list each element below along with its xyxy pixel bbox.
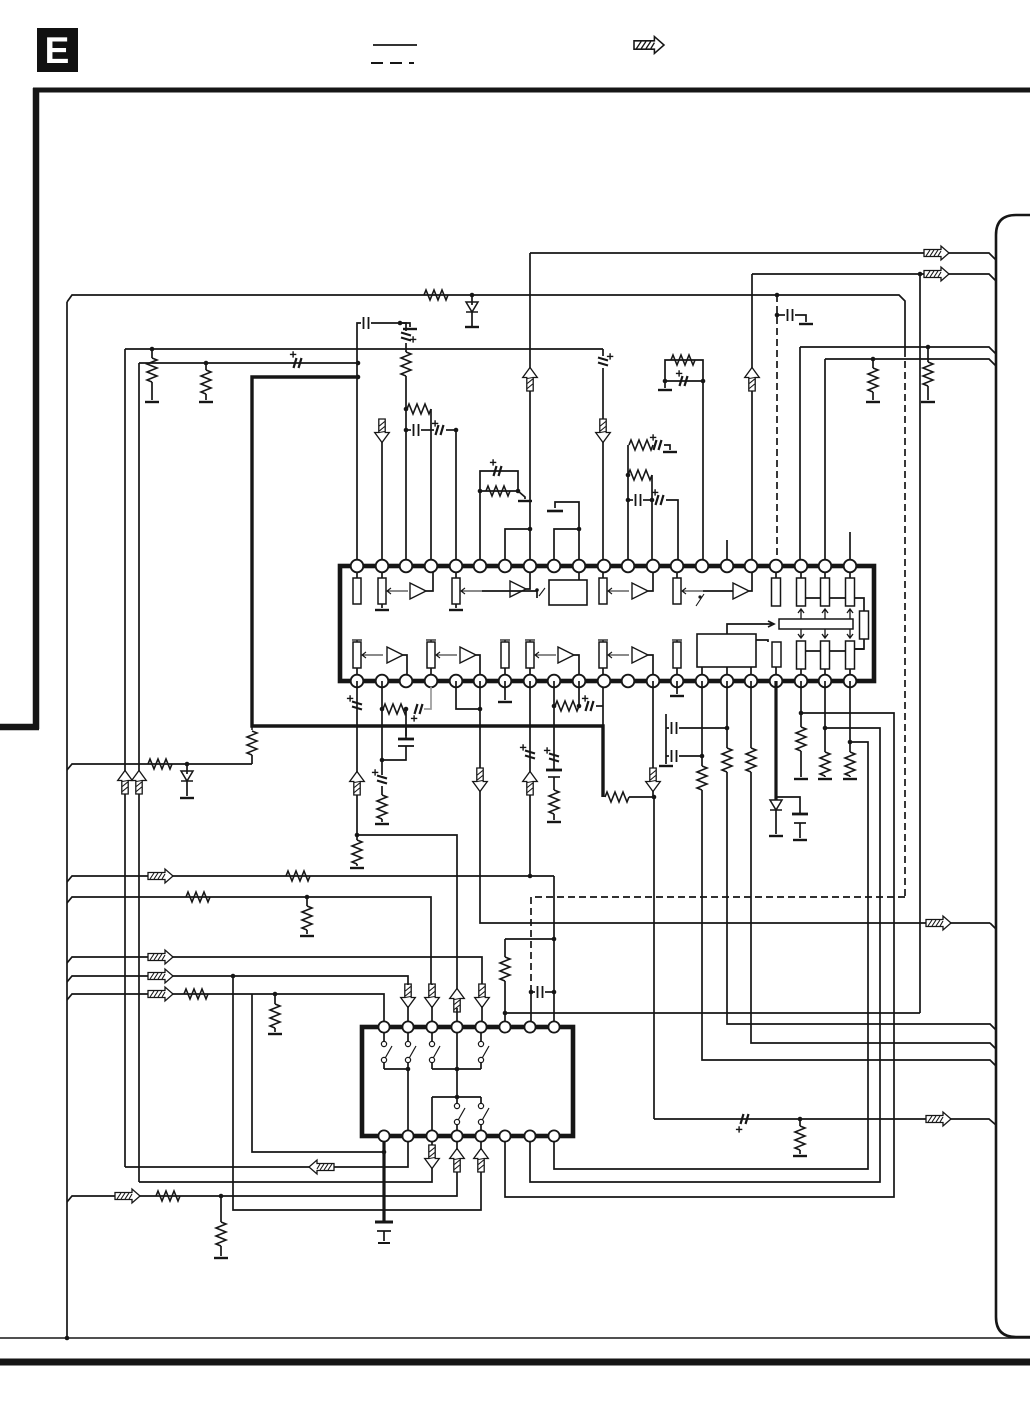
control bar (779, 619, 853, 629)
node x=275 (273, 992, 278, 997)
k17 bottom heavy rail (774, 681, 777, 800)
resistor to ground on y=359 (871, 357, 876, 362)
resistor to ground from net B (150, 347, 155, 352)
k7 bottom riser (529, 681, 531, 876)
pin2/pin3 top arrow tails (408, 984, 432, 985)
coupling cap pin7-pin8 small IC (531, 991, 535, 993)
U1 resistor pin18 (775, 566, 777, 578)
loop resistor (486, 486, 510, 496)
wire y=347 to connector (800, 347, 996, 354)
branch x=254 to y=1153 (252, 994, 384, 1152)
up arrow pin4 bottom (450, 1149, 465, 1173)
U1 bottom pins 22-42 (351, 675, 364, 688)
thick bus L (252, 377, 603, 797)
k4 riser (454, 428, 459, 433)
k13 bottom ground (676, 681, 678, 694)
U1 amp4 (733, 583, 749, 599)
dashed net y=897 (531, 896, 905, 898)
k10 bottom stub to bus (602, 687, 604, 726)
vertical feeder x=125 (124, 349, 126, 1167)
node pin6 (503, 1011, 508, 1016)
U1 pot pin2 (381, 566, 383, 578)
legend solid line (373, 44, 417, 46)
wire net B y=349 (125, 348, 603, 350)
net y=1182 pin3 bottom with down arrow (431, 1142, 433, 1146)
arrow y=274 (924, 267, 949, 281)
bar feed arrow from DAC box (727, 621, 774, 634)
k20 bottom node (849, 681, 851, 742)
ladder links bottom (805, 649, 864, 651)
U2 switch S6 (480, 1097, 482, 1103)
junction k7 on y=876 (528, 874, 533, 879)
node x=233 (231, 974, 236, 979)
wire y=274 to connector (752, 274, 996, 281)
U1 bottom pot b3 (525, 640, 535, 642)
net y=957 (67, 957, 482, 984)
k8 riser to k9 (554, 529, 579, 566)
up arrow small IC pin5 bottom (474, 1149, 489, 1173)
link pin6R to pin8 riser (505, 938, 554, 940)
branch y=835 to small IC pin4 (357, 835, 457, 990)
diode to ground from net A (471, 295, 473, 305)
U1 bottom pot b2 (426, 640, 436, 642)
resistor R on net y=994 (184, 989, 208, 999)
resistor to ground y=1119 (799, 1119, 801, 1126)
damper diode to ground (770, 800, 782, 810)
bar down arrows (798, 629, 804, 638)
resistor y=897 (186, 892, 210, 902)
k8 bottom chain: marker cap (553, 681, 555, 712)
U1 amp b2 (460, 647, 476, 663)
main border top edge (33, 88, 1030, 93)
decoupling caps k14/k15 (665, 714, 667, 762)
k15 bottom net to connector (726, 681, 728, 748)
k15 top stub (726, 540, 728, 566)
feeder up-arrows into y=764 (118, 771, 133, 795)
up arrow on k16 riser (745, 368, 760, 392)
net y=1167 pin2 bottom (125, 1142, 408, 1167)
k16 top riser (751, 274, 753, 566)
net y=876 (67, 876, 554, 882)
bus tail resistor y=797 (605, 792, 629, 802)
k0 up arrow (350, 772, 365, 796)
arrow y=923 (926, 916, 951, 930)
U2 lower bar (432, 1096, 481, 1098)
cap under bus (398, 738, 414, 741)
k9 riser cap to chassis (555, 502, 579, 566)
U1 amp3 (632, 583, 648, 599)
net B corner chain to k10: electrolytic marker (602, 349, 604, 356)
node on net A (470, 293, 475, 298)
net y=1196 pin4 bottom (67, 1172, 457, 1202)
k20 branch wrap to U2 pin16 (554, 742, 868, 1169)
k0 node y=835 (355, 833, 360, 838)
bottom thin rule (0, 1337, 1030, 1339)
k6 riser to k7 (505, 529, 530, 566)
k16 bottom net to connector (750, 681, 752, 748)
k5 top RC loop (480, 471, 518, 566)
k5 bottom with down arrow to y=923 (479, 681, 481, 769)
branch x=233 to y=1210 (233, 976, 481, 1210)
U1 DAC box (697, 634, 756, 667)
k18 top riser (799, 347, 801, 566)
k19 top riser (824, 359, 826, 566)
U1 amp b1 (387, 647, 403, 663)
U2 switch S3 (431, 1033, 433, 1041)
IC U1 body (340, 566, 874, 681)
U1 resistor block b (pin7) (500, 640, 510, 642)
bottom thick rule (0, 1359, 1030, 1366)
electrolytic marker on net C (294, 358, 302, 368)
IC U2 body (362, 1027, 573, 1136)
U2 top pins (378, 1021, 389, 1032)
loop node + ground (701, 379, 706, 384)
U1 amp b3 (558, 647, 574, 663)
U1 amp b4 (632, 647, 648, 663)
U1 bottom pot b1 (352, 640, 362, 642)
k6 bottom ground (504, 681, 506, 700)
node pin8 riser (552, 990, 557, 995)
node C on k0 riser (356, 361, 361, 366)
connector chamfer y=923 (990, 923, 996, 929)
legend arrow icon (634, 37, 664, 54)
U1 pot pin11 (602, 566, 604, 578)
up arrow above small IC pin4 (450, 989, 465, 1013)
arrow y=1196 (115, 1189, 140, 1203)
arrow y=976 (148, 969, 173, 983)
k11 chain riser (627, 445, 629, 566)
down arrow small IC pin5 top (475, 984, 490, 1008)
wire y=253 to connector (530, 253, 996, 260)
net y=976 (67, 976, 408, 984)
U2 join S3-S4 (432, 1068, 481, 1070)
U1 amp1 (410, 583, 426, 599)
k20 top stub (849, 532, 851, 566)
k12 drop with down arrow (652, 681, 654, 797)
marker k9-k10 bottom (586, 701, 594, 711)
k0 bottom: electrolytic marker (356, 681, 358, 835)
pin5 bottom stub (480, 1142, 482, 1150)
resistor to ground on y=347 (926, 345, 931, 350)
node (398, 321, 403, 326)
k4 bottom link to k5 (456, 681, 480, 709)
resistor y=876 (286, 871, 310, 881)
left feeder vertical rail (66, 302, 68, 1338)
U1 amp2 (510, 581, 526, 597)
marker on k7 bottom (525, 751, 535, 759)
dashed net x=905 down (904, 350, 906, 897)
up arrow on k7 riser (523, 368, 538, 392)
pin1 reservoir cap (375, 1221, 393, 1224)
k1 riser with down arrow (381, 420, 383, 566)
U2 pin1 heavy rail to cap (382, 1142, 385, 1222)
k1 lower chain (381, 709, 383, 775)
E label box (37, 28, 78, 72)
cap chain y=430 (404, 428, 409, 433)
net y=897 (67, 897, 431, 984)
k14 bottom net to connector (701, 681, 703, 766)
gray jog to k3 pin (424, 687, 431, 709)
arrow y=876 (148, 869, 173, 883)
resistor k2 riser (405, 343, 407, 352)
U2 switch S5 (456, 1097, 458, 1103)
legend dashed line (371, 62, 414, 64)
k14 top RC loop (665, 360, 703, 566)
U1 ladder resistors bottom (797, 641, 806, 669)
U1 pot pin5 (455, 566, 457, 578)
loop ground stub (518, 491, 525, 499)
node y=1196 (219, 1194, 224, 1199)
k18 resistor to ground (800, 713, 802, 727)
electrolytic marker k2 chain (400, 323, 406, 331)
node net A / pin17 dashed riser (775, 293, 780, 298)
marker on y=1119 (741, 1114, 749, 1124)
arrow y=253 (924, 246, 949, 260)
k2 bottom wire with cap to bus (405, 709, 407, 736)
net y=1013 (505, 1012, 920, 1014)
up arrow on k7 bottom (523, 772, 538, 796)
resistor on y=764 (148, 759, 172, 769)
dashed net x=531 down (530, 897, 532, 986)
U1 resistor b pin18 (772, 642, 781, 667)
net y=1119 to connector (654, 1119, 996, 1125)
node diode (185, 762, 190, 767)
chain marker + gnd (654, 440, 662, 450)
U1 resistor block b (pin14) (672, 640, 682, 642)
node y=897 (305, 895, 310, 900)
k20 resistor to ground (849, 742, 851, 752)
k1 bottom node (381, 681, 383, 709)
chain marker to k13 (656, 495, 664, 505)
reservoir cap (792, 813, 808, 816)
resistor k1 chain to ground (381, 786, 383, 795)
main border bottom-left stub (0, 724, 39, 731)
U2 switch S4 (480, 1033, 482, 1041)
ladder links (805, 598, 864, 611)
riser x=654 to y=1119 (653, 797, 655, 1119)
k19 branch wrap to U2 pin15 (530, 728, 880, 1182)
k19 bottom node (824, 681, 826, 728)
node y=1119 (798, 1117, 803, 1122)
trimmer blade mark 2 (696, 594, 704, 606)
k8 plate cap + resistor to ground (546, 769, 562, 772)
small IC pin8 riser (553, 876, 555, 1021)
resistor to ground from net C (204, 361, 209, 366)
resistor k2-k3 (404, 407, 409, 412)
resistor to ground y=897 (306, 897, 308, 906)
vertical feeder x=139 (138, 363, 140, 1182)
far-right ladder resistor (860, 611, 869, 639)
bar up arrows (798, 609, 804, 619)
left arrow y=1167 (309, 1160, 334, 1174)
long riser x=920 (919, 274, 921, 1013)
k9 bottom stub (578, 681, 580, 706)
down arrow small IC pin2 top (401, 984, 416, 1008)
net y=764 feed (67, 764, 252, 770)
trimmer blade mark (539, 588, 545, 596)
k18 branch wrap to U2 pin14 (505, 713, 894, 1197)
k0 top riser with cap chain (357, 323, 361, 566)
U1 center block (549, 580, 587, 605)
k10 riser with down arrow (602, 368, 604, 420)
dropper resistor from bus to y=764 (251, 726, 253, 730)
chain cap y=500 (626, 498, 631, 503)
resistor k1-k2 bottom (383, 704, 407, 714)
resistor to ground x=275 (274, 994, 276, 1004)
U1 ladder resistors top (800, 566, 802, 578)
junction on pin1 rail (382, 1150, 387, 1155)
chain resistor R upper (629, 440, 653, 450)
k2 riser rest (405, 376, 407, 566)
resistor y=1196 (156, 1191, 180, 1201)
diode to ground below y=764 (186, 764, 188, 774)
U2 bottom pins (378, 1130, 389, 1141)
wire y=359 to connector (825, 359, 996, 366)
loop resistor (671, 355, 695, 365)
right connector rounded box (996, 215, 1030, 1337)
top-right capacitor to chassis (775, 313, 780, 318)
k18 bottom node (800, 681, 802, 713)
chain resistor lower (626, 473, 631, 478)
U2 switch S2 (407, 1033, 409, 1041)
main border left edge (33, 88, 40, 729)
arrow y=1119 (926, 1112, 951, 1126)
U2 pin4 straight (456, 1033, 458, 1069)
arrow y=994 (148, 987, 173, 1001)
cap node small IC pin7 (529, 990, 534, 995)
branch to reservoir cap (776, 797, 800, 814)
U1 bottom pot b4 (598, 640, 608, 642)
dashed riser to IC pin17 top (776, 295, 778, 560)
small IC pin6 top resistor (504, 939, 506, 957)
loop marker (680, 376, 688, 386)
down arrow small IC pin3 top (425, 984, 440, 1008)
U1 top pins 1-21 (351, 560, 364, 573)
wire net A y=295 (67, 295, 905, 350)
U1 interior: resistor block pin1 (356, 566, 358, 578)
k3 riser (430, 409, 432, 566)
U1 pot pin14 (676, 566, 678, 578)
marker on k1 chain (377, 776, 387, 784)
arrow y=957 (148, 950, 173, 964)
net y=994 (67, 994, 384, 1021)
loop electrolytic marker (494, 466, 502, 476)
k19 resistor to ground (824, 728, 826, 752)
loop nodes (478, 489, 483, 494)
series cap at k0 top (364, 317, 369, 329)
node y=797 (652, 795, 657, 800)
marker to gray jog k3 (415, 704, 423, 714)
k7 top riser (net to connector y=253) (529, 253, 531, 566)
U2 switch S1 (383, 1033, 385, 1041)
junction at bottom rule (65, 1336, 70, 1341)
resistor to ground y=1196 (220, 1196, 222, 1222)
wire net C y=363 (139, 362, 358, 364)
resistor on net A (424, 290, 448, 300)
svg-text:E: E (45, 30, 70, 71)
chassis stub (400, 323, 410, 327)
k0 resistor to ground (352, 840, 362, 864)
bus node on k0 riser (356, 375, 361, 380)
U2 join S1-S2 (384, 1068, 408, 1070)
solid tail to cap node (530, 986, 532, 1021)
resistor k8-k9 bottom (555, 701, 579, 711)
